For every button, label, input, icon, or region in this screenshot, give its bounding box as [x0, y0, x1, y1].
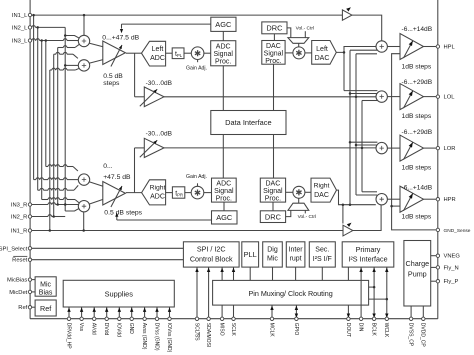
- svg-text:LOR: LOR: [444, 146, 456, 152]
- amplifier IN1_L buffer: [342, 10, 352, 20]
- svg-text:DVDD_CP: DVDD_CP: [420, 323, 426, 348]
- wire MicBias to Mic Bias block: [30, 279, 35, 281]
- wire ground sense net: [392, 54, 438, 230]
- svg-text:Right: Right: [150, 185, 166, 192]
- wire bus v6 IN2_R up: [53, 54, 55, 216]
- mixer HPR sum: [376, 194, 387, 205]
- svg-text:ADC: ADC: [216, 44, 231, 51]
- wire GPIO pin riser: [295, 305, 297, 319]
- svg-text:IN3_L: IN3_L: [12, 39, 28, 45]
- svg-text:SCL/SS: SCL/SS: [193, 323, 199, 341]
- amplifier LOL: [400, 84, 424, 110]
- svg-text:AGC: AGC: [216, 213, 233, 222]
- arrowheads WCLK bidirectional: [385, 268, 388, 272]
- svg-text:Reset: Reset: [12, 258, 28, 264]
- arrowheads supply pins: [67, 308, 70, 312]
- svg-text:DIN: DIN: [358, 323, 364, 332]
- svg-text:1dB steps: 1dB steps: [402, 113, 432, 120]
- svg-text:-30...0dB: -30...0dB: [146, 80, 172, 87]
- wire right bypass output to LOR mixer: [164, 147, 376, 149]
- wire volume trapezoid to multiplier: [298, 43, 300, 47]
- wire v1 into right aux mixer: [34, 179, 36, 181]
- svg-text:MCLK: MCLK: [268, 323, 274, 338]
- svg-text:ADC: ADC: [150, 55, 165, 62]
- block Supplies: [63, 280, 174, 307]
- svg-text:PLL: PLL: [244, 250, 257, 259]
- svg-text:Vss: Vss: [78, 323, 84, 332]
- svg-text:I²S Interface: I²S Interface: [348, 255, 387, 264]
- wire IN2_R jog into right main mixer: [65, 208, 79, 211]
- block AGC left: [211, 17, 236, 31]
- svg-text:SCLK: SCLK: [230, 323, 236, 337]
- block Ref: [35, 300, 56, 316]
- wire data interface to DAC SP right: [273, 135, 275, 179]
- wire pin muxing to BCLK: [369, 286, 375, 288]
- volume multiplier right DAC: [293, 186, 305, 198]
- block ADC Signal Proc left: [211, 41, 236, 66]
- wire DRC left to DAC SP: [273, 34, 275, 41]
- svg-text:IN1_L: IN1_L: [12, 13, 28, 19]
- wire ADC SP left to data interface: [222, 66, 224, 111]
- svg-text:Proc.: Proc.: [265, 196, 281, 203]
- amplifier right PGA 0..+47.5dB: [103, 182, 126, 206]
- wire SCL/SS pin riser: [196, 267, 198, 319]
- wire LOL mixer to amp: [387, 96, 400, 98]
- wire v2 into right aux mixer: [38, 189, 40, 191]
- volume control trapezoid right: [288, 203, 309, 210]
- block AGC right: [212, 211, 238, 224]
- wire charge pump to Fly_N pin: [431, 266, 438, 268]
- svg-text:DVSS_CP: DVSS_CP: [408, 323, 414, 347]
- svg-text:Sec.: Sec.: [315, 246, 329, 253]
- amplifier IN1_R buffer: [343, 225, 353, 236]
- svg-text:AGC: AGC: [215, 20, 232, 29]
- mixer right aux sum: [78, 174, 89, 185]
- svg-text:-6...+14dB: -6...+14dB: [402, 184, 433, 191]
- wire V4 right bypass riser: [361, 101, 363, 192]
- wire DRC left to volume control: [287, 28, 291, 38]
- svg-text:IN2_R: IN2_R: [11, 215, 27, 221]
- svg-text:-6...+14dB: -6...+14dB: [402, 26, 433, 33]
- wire V2 RDAC riser: [349, 50, 351, 205]
- svg-text:Mic: Mic: [40, 281, 51, 288]
- svg-text:Left: Left: [152, 46, 164, 53]
- wire Right ADC to interpolation filter: [166, 192, 173, 194]
- svg-text:Signal: Signal: [264, 51, 284, 58]
- wire bus v4 IN3_L down 2: [45, 41, 47, 167]
- wire DAC SP to multiplier left: [285, 52, 293, 54]
- svg-text:Signal: Signal: [214, 188, 234, 195]
- wire DAC SP left to data interface: [273, 64, 275, 110]
- svg-text:SPI_Select: SPI_Select: [0, 246, 28, 252]
- wire Right DAC out to HPR mixer: [337, 190, 376, 205]
- block tPR filter: [172, 187, 184, 198]
- wire left bypass output to LOL mixer: [164, 96, 376, 98]
- wire bus v1 IN1_L down: [33, 15, 35, 180]
- svg-text:0.5 dB: 0.5 dB: [103, 73, 123, 80]
- svg-text:GND: GND: [128, 323, 134, 335]
- wire tPL to gain adjust: [184, 52, 191, 54]
- DAC right converter symbol: [311, 178, 337, 202]
- chip outline right border: [437, 0, 439, 319]
- svg-text:Left: Left: [316, 46, 328, 53]
- svg-text:-6...+29dB: -6...+29dB: [402, 79, 433, 86]
- svg-text:0.5 dB steps: 0.5 dB steps: [104, 210, 142, 217]
- wire SDA/MOSI pin riser: [208, 267, 210, 319]
- wire AGC left to ADC SP: [222, 31, 224, 40]
- wire gain adjust to ADC SP right: [204, 192, 212, 194]
- svg-text:DAC: DAC: [315, 55, 330, 62]
- wire left aux mixer to PGA: [90, 60, 104, 64]
- svg-text:Ref: Ref: [18, 305, 27, 311]
- svg-text:Ref: Ref: [40, 304, 51, 313]
- wire BCLK riser: [373, 267, 375, 319]
- svg-text:Proc.: Proc.: [216, 196, 232, 203]
- chip outline bottom border: [30, 318, 438, 320]
- svg-text:HPR: HPR: [444, 197, 456, 203]
- mixer right main sum: [78, 201, 89, 212]
- svg-text:Control Block: Control Block: [190, 254, 233, 263]
- amplifier HPL: [400, 34, 424, 60]
- svg-text:Pin Muxing/ Clock Routing: Pin Muxing/ Clock Routing: [248, 289, 332, 298]
- wire HPL mixer to amp: [387, 46, 400, 48]
- wire DAC SP right to DRC: [272, 202, 274, 211]
- wire right PGA output node: [126, 192, 142, 194]
- svg-text:SDA/MOSI: SDA/MOSI: [205, 323, 211, 347]
- svg-text:GPIO: GPIO: [293, 323, 299, 336]
- volume control trapezoid left: [288, 38, 309, 44]
- svg-text:0...+47.5 dB: 0...+47.5 dB: [102, 35, 139, 42]
- wire Reset net: [30, 259, 183, 261]
- wire SCLK pin riser: [233, 267, 235, 280]
- pin circles right edge: [436, 45, 439, 48]
- wire charge pump to VNEG pin: [431, 255, 438, 257]
- wire Interrupt stub to pin muxing: [295, 267, 297, 280]
- wire bus v2 IN2_L down: [37, 27, 39, 190]
- svg-text:I²S I/F: I²S I/F: [313, 256, 332, 263]
- svg-text:BCLK: BCLK: [371, 323, 377, 337]
- amplifier HPR: [400, 186, 424, 212]
- wire DAC SP to multiplier right: [286, 191, 293, 193]
- wire MicDet to Mic Bias block: [30, 291, 35, 293]
- ADC left converter symbol: [142, 41, 166, 66]
- wire DOUT riser: [347, 267, 349, 280]
- wire IN2_L jog into left main mixer: [65, 36, 79, 39]
- svg-text:Gain Adj.: Gain Adj.: [186, 174, 207, 180]
- wire AGC left feedback arrow: [122, 23, 211, 25]
- wire AGC right feedback arrow: [117, 219, 212, 221]
- svg-text:DRC: DRC: [265, 213, 282, 222]
- wire bus v5 IN1_R up: [49, 70, 51, 231]
- block DAC Signal Proc right: [260, 178, 285, 202]
- svg-text:1dB steps: 1dB steps: [402, 63, 432, 70]
- wire IN2_R net y=216.5: [30, 216, 48, 218]
- svg-text:DOUT: DOUT: [345, 323, 351, 337]
- svg-text:+47.5 dB: +47.5 dB: [103, 174, 131, 181]
- chip outline left border: [29, 0, 31, 319]
- wire charge pump DVDD_CP stub: [422, 306, 424, 319]
- arrowhead MCLK into pin muxing: [270, 306, 273, 310]
- block Primary I2S Interface: [342, 242, 394, 267]
- svg-text:Signal: Signal: [213, 51, 233, 58]
- wire SPI_Select net: [30, 247, 183, 249]
- wire pin muxing to WCLK: [369, 298, 387, 300]
- block DAC Signal Proc left: [262, 41, 285, 65]
- pin circles left edge: [28, 13, 31, 16]
- svg-text:VNEG: VNEG: [444, 254, 461, 260]
- wire buffer to HPL mixer: [352, 15, 382, 41]
- svg-text:IN1_R: IN1_R: [11, 229, 27, 235]
- svg-text:Mic: Mic: [267, 256, 278, 263]
- wire IN1_R rise to right main mixer: [83, 212, 85, 231]
- svg-text:-30...0dB: -30...0dB: [146, 130, 172, 137]
- wire charge pump DVSS_CP stub: [410, 306, 412, 319]
- arrowhead DIN into I2S: [359, 268, 362, 272]
- arrowheads GPIO bidirectional: [295, 306, 298, 310]
- svg-text:WCLK: WCLK: [383, 323, 389, 338]
- svg-text:tPL: tPL: [175, 51, 183, 58]
- wire data interface to ADC SP right: [222, 135, 224, 179]
- svg-text:Vol.- Ctrl: Vol.- Ctrl: [296, 26, 314, 32]
- DAC left converter symbol: [312, 41, 337, 65]
- volume multiplier left DAC: [293, 47, 305, 59]
- svg-text:IN3_R: IN3_R: [11, 203, 27, 209]
- wire IN3_R net y=204.5: [30, 204, 48, 206]
- wire IN1_L net y=15: [30, 14, 342, 16]
- svg-text:steps: steps: [103, 80, 120, 87]
- wire DRC right to volume control: [286, 210, 291, 216]
- wire left main mixer to PGA: [90, 43, 104, 47]
- wire V3 left bypass riser: [355, 54, 357, 195]
- wire WCLK riser: [386, 267, 388, 319]
- block Dig Mic: [263, 242, 283, 267]
- svg-text:MISO: MISO: [219, 323, 225, 336]
- wire LOL amp to pin: [424, 96, 438, 98]
- svg-text:IN2_L: IN2_L: [12, 25, 28, 31]
- mixer left aux sum: [78, 60, 89, 71]
- arrowheads SPI pins into control block: [195, 268, 198, 272]
- svg-text:IOVdd: IOVdd: [116, 323, 122, 337]
- wire supplies pin stubs: [68, 307, 70, 319]
- svg-text:Primary: Primary: [356, 245, 381, 254]
- wire v5 into left aux mixer: [50, 69, 52, 71]
- svg-text:Signal: Signal: [263, 188, 283, 195]
- wire LOR amp to pin: [424, 147, 438, 149]
- wire bus v3 IN3_L down: [41, 41, 43, 200]
- block tPL filter: [172, 48, 184, 59]
- wire MCLK pin riser: [271, 305, 273, 319]
- gain adjust multiplier left ADC: [191, 47, 204, 60]
- wire bus v7 IN3_R up: [57, 48, 59, 205]
- svg-text:rupt: rupt: [290, 256, 302, 263]
- svg-text:1dB steps: 1dB steps: [402, 164, 432, 171]
- svg-text:Bias: Bias: [39, 289, 53, 296]
- svg-text:ADC: ADC: [216, 181, 231, 188]
- svg-text:Right: Right: [314, 182, 330, 189]
- svg-text:DAC: DAC: [266, 43, 281, 50]
- wire v4 into right aux mixer: [46, 166, 48, 168]
- svg-text:MicDet: MicDet: [9, 290, 27, 296]
- wire v3 into right main mixer: [42, 199, 48, 201]
- block Mic Bias: [35, 277, 56, 296]
- wire RDAC branch down: [342, 205, 344, 224]
- wire DIN riser: [360, 267, 362, 319]
- svg-text:Data Interface: Data Interface: [225, 118, 271, 127]
- block DRC right: [260, 211, 285, 223]
- svg-text:Proc.: Proc.: [215, 59, 231, 66]
- pin circles bottom edge: [67, 317, 70, 320]
- wire left PGA output node: [126, 52, 142, 54]
- wire HPL amp to pin: [424, 46, 438, 48]
- wire v6 into left aux mixer: [54, 53, 56, 55]
- svg-text:DVss (GND): DVss (GND): [153, 323, 159, 351]
- amplifier left bypass -30..0dB: [144, 87, 164, 107]
- wire multiplier to Right DAC: [305, 191, 311, 193]
- wire HPR amp to pin: [424, 198, 438, 200]
- wire gain adjust to ADC signal processing: [204, 52, 211, 54]
- block Interrupt: [286, 242, 305, 267]
- svg-text:Dig: Dig: [267, 247, 278, 254]
- wire IN1_L drop to left main mixer: [83, 15, 85, 35]
- mixer LOL sum: [376, 91, 387, 102]
- svg-text:DRVdd_HP: DRVdd_HP: [65, 323, 71, 349]
- block DRC left: [262, 22, 287, 34]
- wire Ref pin to Ref block: [30, 306, 35, 308]
- amplifier LOR: [400, 135, 424, 161]
- wire tPR to gain adjust: [185, 192, 191, 194]
- svg-text:Avss (GND): Avss (GND): [141, 323, 147, 350]
- svg-text:Inter: Inter: [289, 247, 304, 254]
- amplifier left PGA 0..+47.5dB: [103, 41, 126, 65]
- wire into right bypass amp: [135, 147, 145, 149]
- mixer LOR sum: [376, 142, 387, 153]
- wire bus v8 IN2 column: [64, 27, 66, 211]
- svg-text:Charge: Charge: [406, 259, 430, 268]
- svg-text:MicBias: MicBias: [7, 278, 27, 284]
- wire PLL stub to pin muxing: [249, 267, 251, 280]
- wire right main mixer to PGA: [90, 199, 104, 204]
- wire V1 LDAC to LOL tap: [343, 52, 345, 90]
- wire right aux mixer to PGA: [90, 182, 104, 186]
- svg-text:GND_Sense: GND_Sense: [444, 228, 471, 234]
- block PLL: [242, 242, 259, 267]
- svg-text:-6...+29dB: -6...+29dB: [402, 129, 433, 136]
- mixer left main sum: [78, 35, 89, 46]
- svg-text:DVdd: DVdd: [103, 323, 109, 336]
- svg-text:Pump: Pump: [408, 270, 427, 279]
- block SPI/I2C Control Block: [183, 242, 239, 267]
- wire Left ADC to interpolation filter: [166, 52, 173, 54]
- svg-text:DAC: DAC: [266, 181, 281, 188]
- block Charge Pump: [404, 241, 431, 307]
- wire MISO pin riser: [221, 267, 223, 280]
- wire multiplier to Left DAC: [305, 52, 312, 54]
- svg-text:DAC: DAC: [314, 192, 329, 199]
- svg-text:Gain Adj.: Gain Adj.: [186, 66, 207, 72]
- wire Dig Mic stub to pin muxing: [272, 267, 274, 280]
- wire IN2_L net y=27.4: [30, 26, 32, 28]
- wire LOR mixer to amp: [387, 147, 400, 149]
- wire buffer to HPR mixer: [353, 205, 381, 231]
- wire v7 into left main mixer: [58, 47, 64, 49]
- svg-text:1dB steps: 1dB steps: [402, 214, 432, 221]
- wire AGC right to ADC SP: [223, 202, 225, 211]
- wire Left DAC out to HPL mixer: [336, 47, 376, 53]
- wire Sec I2S stub to pin muxing: [321, 267, 323, 280]
- svg-text:ADC: ADC: [150, 194, 165, 201]
- svg-text:LOL: LOL: [444, 95, 456, 101]
- svg-text:0...: 0...: [103, 163, 113, 170]
- wire trapezoid to multiplier right: [298, 198, 300, 203]
- wire v8 into left aux mixer: [65, 64, 78, 66]
- gain adjust multiplier right ADC: [191, 186, 204, 199]
- wire IN3_L net y=40.5: [30, 40, 32, 42]
- svg-text:Vol.- Ctrl: Vol.- Ctrl: [298, 214, 316, 220]
- svg-text:tPR: tPR: [175, 190, 183, 197]
- svg-text:HPL: HPL: [444, 45, 456, 51]
- svg-text:Proc.: Proc.: [265, 58, 281, 65]
- block Pin Muxing / Clock Routing: [213, 280, 369, 305]
- block Secondary I2S IF: [309, 242, 335, 267]
- block Data Interface: [211, 111, 286, 135]
- svg-text:Fly_N: Fly_N: [444, 265, 459, 271]
- mixer HPL sum: [376, 41, 387, 52]
- arrowheads BCLK bidirectional: [372, 268, 375, 272]
- wire HPR mixer to amp: [387, 198, 400, 200]
- amplifier right bypass -30..0dB: [144, 138, 164, 157]
- wire IN1_R net y=230.5: [30, 230, 343, 232]
- svg-text:Supplies: Supplies: [105, 289, 134, 298]
- svg-text:AVdd: AVdd: [91, 323, 97, 335]
- block ADC Signal Proc right: [212, 178, 237, 202]
- svg-text:Fly_P: Fly_P: [444, 279, 459, 285]
- svg-text:DRC: DRC: [266, 23, 283, 32]
- ADC right converter symbol: [142, 180, 166, 205]
- svg-text:SPI / I2C: SPI / I2C: [197, 245, 226, 254]
- arrowhead DOUT to pin: [347, 314, 350, 318]
- wire charge pump to Fly_P pin: [431, 280, 438, 282]
- svg-text:IOVss (GND): IOVss (GND): [166, 323, 172, 353]
- wire into left bypass amp: [135, 96, 145, 98]
